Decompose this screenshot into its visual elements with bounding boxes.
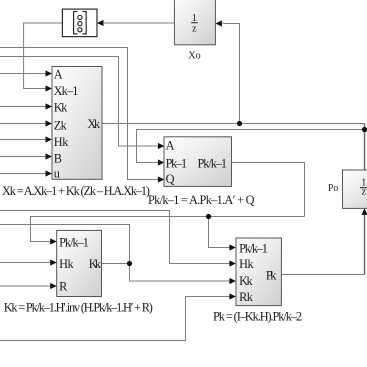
svg-text:Pk/k–1: Pk/k–1 bbox=[59, 235, 89, 249]
svg-text:Hk: Hk bbox=[239, 257, 254, 271]
svg-text:z: z bbox=[361, 187, 366, 198]
svg-text:Xo: Xo bbox=[188, 50, 200, 61]
svg-text:Pk/k–1: Pk/k–1 bbox=[239, 241, 268, 255]
svg-text:Pk–1: Pk–1 bbox=[166, 156, 188, 170]
svg-text:B: B bbox=[54, 152, 62, 166]
svg-text:A: A bbox=[54, 67, 63, 81]
svg-text:Pk/k–1 = A.Pk–1.A′ + Q: Pk/k–1 = A.Pk–1.A′ + Q bbox=[148, 193, 255, 207]
svg-text:Kk: Kk bbox=[54, 101, 68, 115]
svg-text:Zk: Zk bbox=[54, 118, 68, 132]
svg-text:Hk: Hk bbox=[59, 257, 74, 271]
svg-text:Pk/k–1: Pk/k–1 bbox=[198, 156, 228, 170]
svg-text:u: u bbox=[54, 167, 60, 181]
svg-text:Rk: Rk bbox=[239, 290, 254, 304]
svg-text:Xk–1: Xk–1 bbox=[54, 84, 79, 98]
svg-text:Xk = A.Xk–1 + Kk (Zk – H.A.Xk–: Xk = A.Xk–1 + Kk (Zk – H.A.Xk–1) bbox=[2, 184, 150, 198]
svg-text:Q: Q bbox=[166, 172, 175, 186]
svg-text:Kk: Kk bbox=[89, 257, 102, 271]
svg-text:Kk = Pk/k–1.H′.inv (H.Pk/k–1.H: Kk = Pk/k–1.H′.inv (H.Pk/k–1.H′ + R) bbox=[4, 300, 153, 314]
svg-text:Po: Po bbox=[328, 183, 338, 194]
svg-text:A: A bbox=[166, 138, 175, 152]
svg-text:Kk: Kk bbox=[239, 274, 253, 288]
svg-text:Xk: Xk bbox=[87, 117, 101, 131]
svg-text:R: R bbox=[59, 280, 68, 294]
svg-text:Pk: Pk bbox=[266, 269, 277, 283]
svg-text:Hk: Hk bbox=[54, 135, 69, 149]
svg-text:z: z bbox=[192, 24, 197, 35]
svg-text:Pk = (I–Kk.H).Pk/k–2: Pk = (I–Kk.H).Pk/k–2 bbox=[213, 310, 302, 324]
